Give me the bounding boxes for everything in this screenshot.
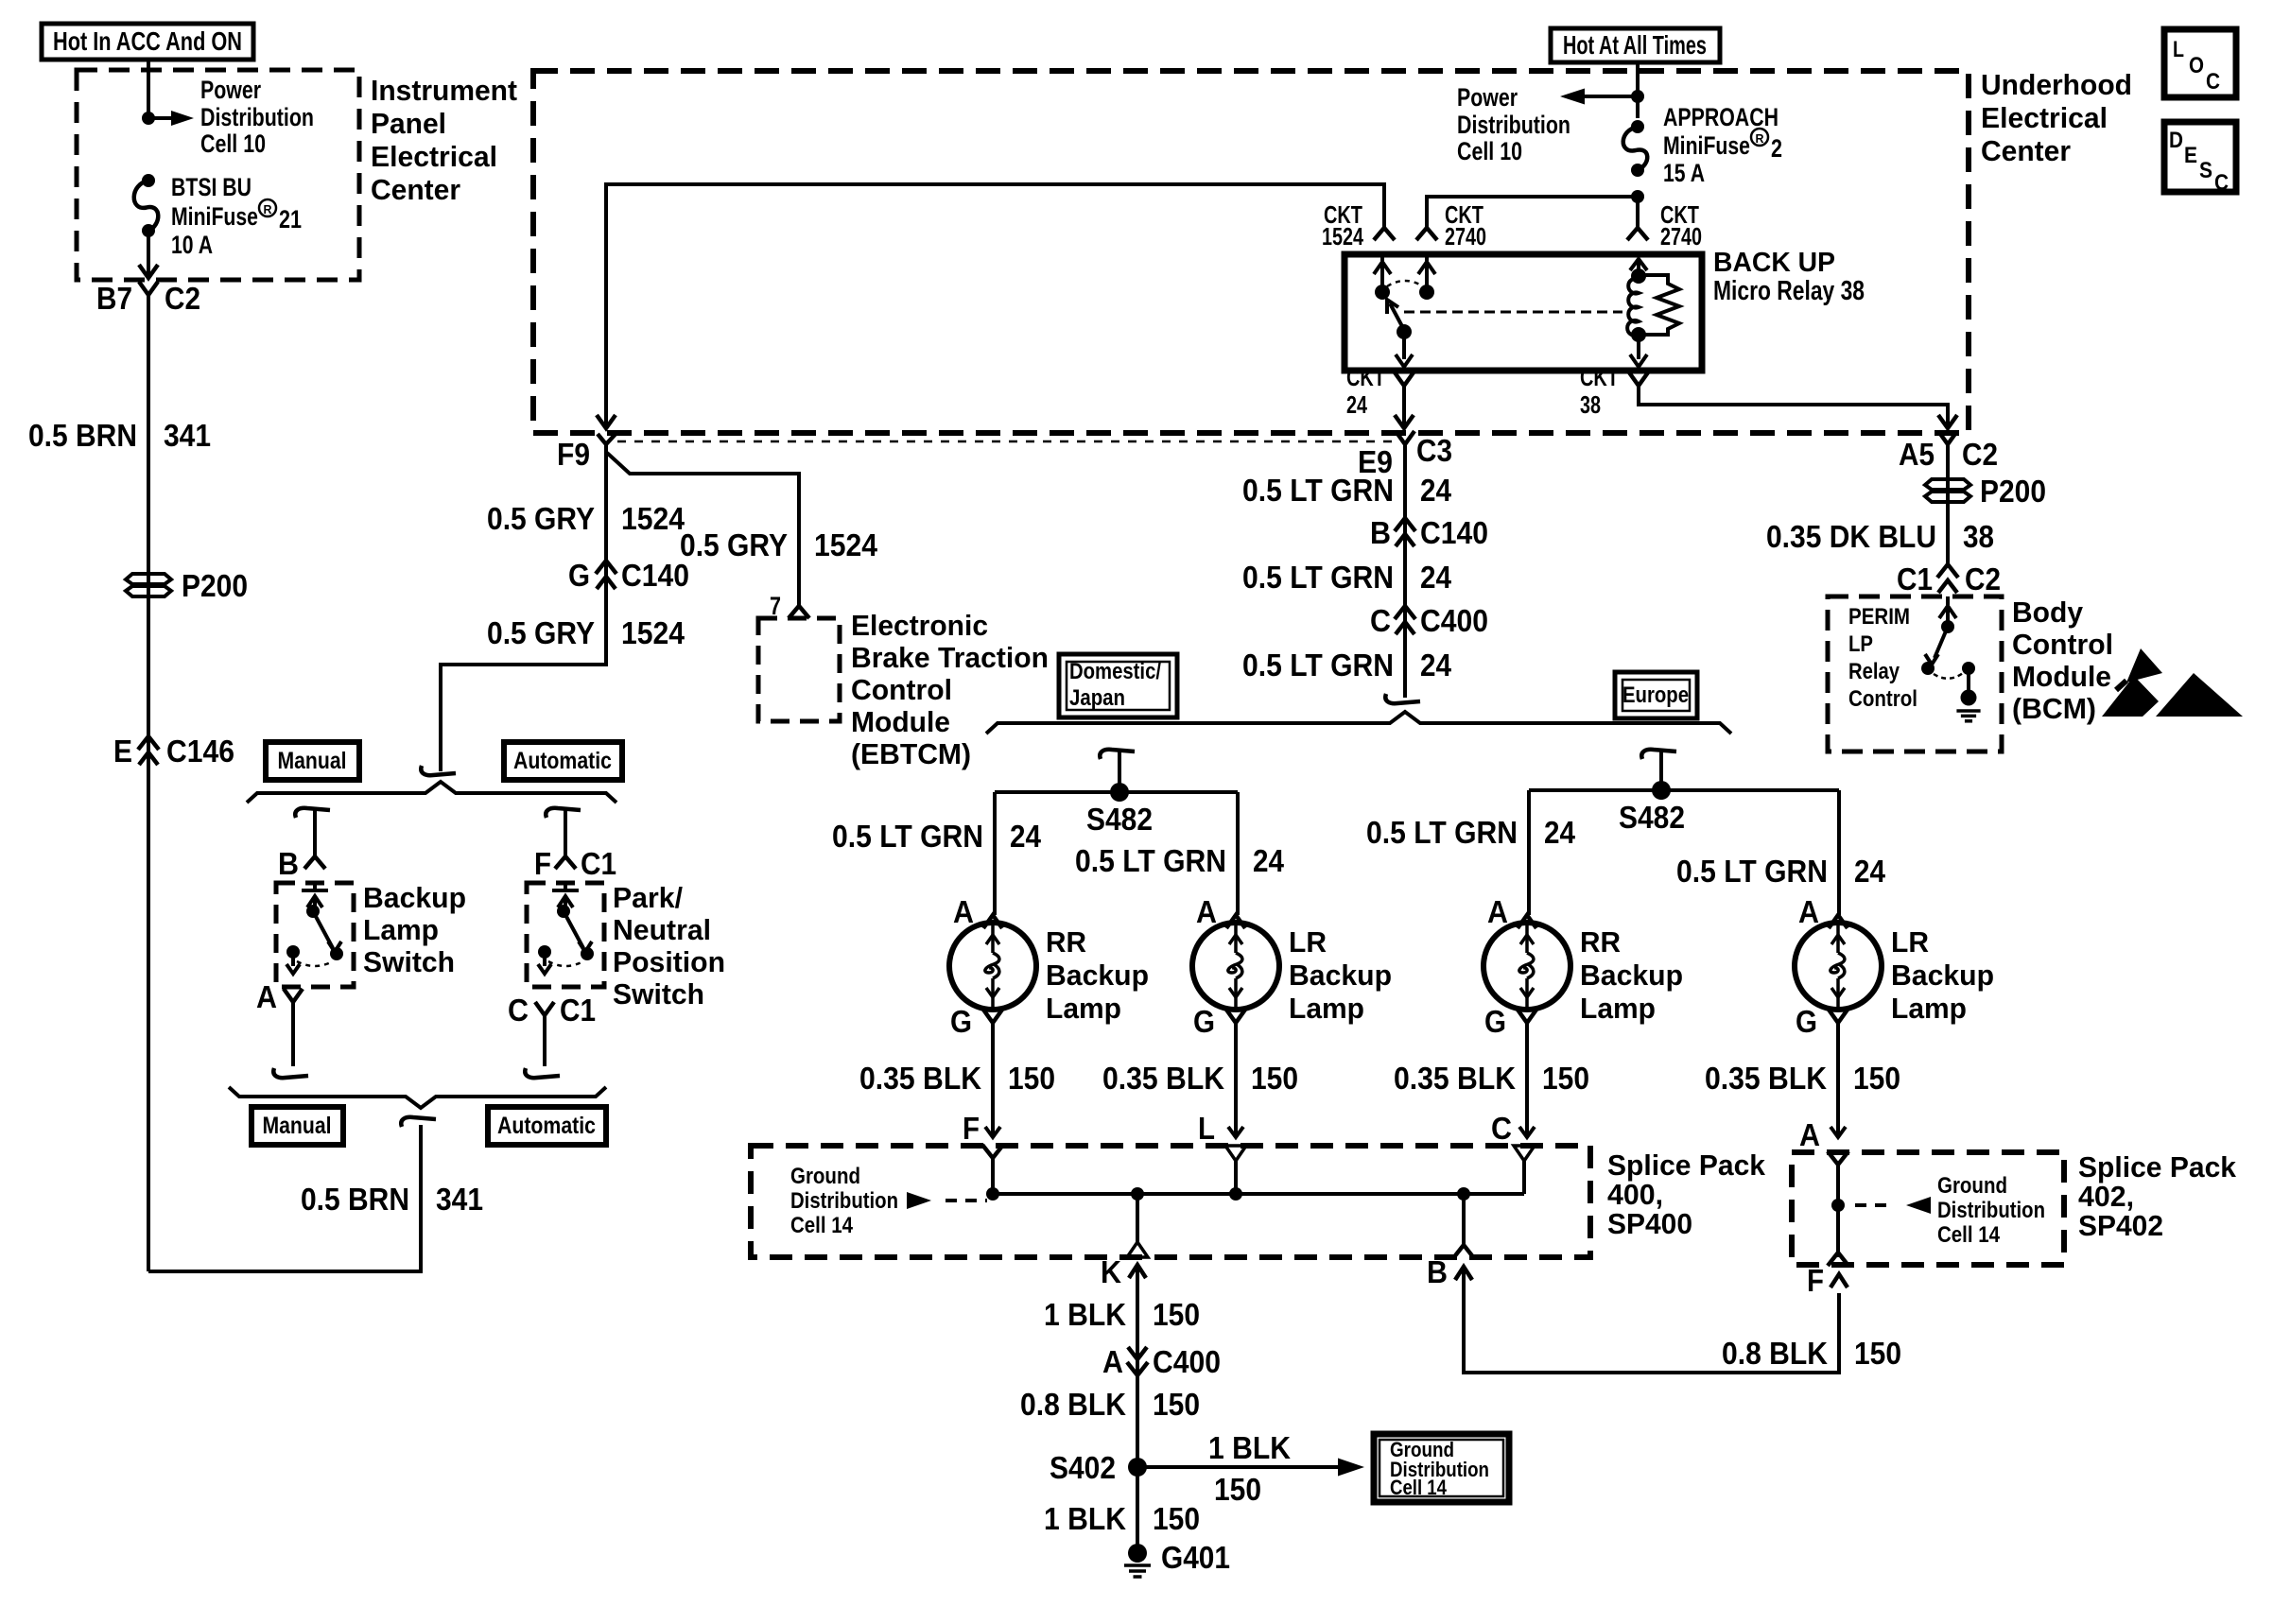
svg-text:S482: S482 <box>1086 802 1153 837</box>
node S482 domestic <box>1086 783 1153 837</box>
pigtail domestic S482 feed <box>1100 750 1135 792</box>
label Splice Pack 402 SP402 <box>2078 1150 2237 1242</box>
svg-text:1 BLK: 1 BLK <box>1208 1430 1291 1465</box>
svg-text:Lamp: Lamp <box>1891 992 1967 1025</box>
Manual box top <box>266 742 359 780</box>
label 0.5 LT GRN 24 LR dom <box>1075 843 1285 878</box>
label 0.5 LT GRN 24 RR eur <box>1366 815 1576 850</box>
connector G C140 <box>568 558 689 593</box>
pigtail below bottom bracket <box>401 1117 436 1127</box>
svg-text:P200: P200 <box>182 568 248 603</box>
svg-text:Automatic: Automatic <box>497 1113 596 1139</box>
svg-text:24: 24 <box>1346 390 1367 419</box>
wire fuse to relay coil pin CKT 2740 <box>1636 197 1640 227</box>
svg-text:24: 24 <box>1420 473 1452 508</box>
Automatic box bottom <box>488 1107 606 1145</box>
bracket domestic europe <box>986 712 1731 734</box>
svg-text:S: S <box>2199 158 2212 183</box>
svg-text:Ground: Ground <box>1937 1173 2007 1199</box>
svg-text:Domestic/: Domestic/ <box>1069 659 1161 684</box>
connector E C146 <box>113 734 234 769</box>
svg-text:B: B <box>1427 1254 1448 1289</box>
wire 0.5 LT GRN 24 feed <box>1403 444 1407 698</box>
svg-text:Module: Module <box>2012 660 2111 693</box>
svg-text:341: 341 <box>436 1182 483 1217</box>
LOC box <box>2164 29 2236 97</box>
svg-text:C1: C1 <box>560 993 596 1028</box>
svg-text:F: F <box>1807 1263 1824 1298</box>
svg-text:0.5 BRN: 0.5 BRN <box>301 1182 409 1217</box>
label Backup Lamp Switch <box>363 881 466 978</box>
svg-text:Backup: Backup <box>1580 959 1683 992</box>
svg-text:150: 150 <box>1153 1297 1200 1332</box>
svg-text:24: 24 <box>1854 854 1886 889</box>
svg-text:Center: Center <box>1981 134 2071 167</box>
svg-text:150: 150 <box>1251 1061 1298 1096</box>
pin B backup lamp switch <box>278 846 325 881</box>
svg-text:1524: 1524 <box>621 615 685 650</box>
svg-text:R: R <box>1756 131 1765 146</box>
splice pack 400 exit B <box>1453 1194 1474 1258</box>
Ground Distribution Cell 14 box <box>1374 1434 1509 1502</box>
lamp LR backup lamp 2 <box>1192 923 1279 1010</box>
svg-text:0.5 BRN: 0.5 BRN <box>28 418 137 453</box>
inline connector P200 right <box>1925 474 2046 509</box>
wire switch A to bottom bracket <box>273 1002 308 1078</box>
svg-text:Control: Control <box>2012 628 2113 661</box>
node S402 <box>1050 1450 1147 1485</box>
label 0.5 LT GRN 24 seg2 <box>1242 560 1452 595</box>
wire fuse to IP box bottom <box>139 231 158 278</box>
svg-text:0.5 GRY: 0.5 GRY <box>487 615 595 650</box>
svg-text:Distribution: Distribution <box>1457 111 1570 139</box>
svg-text:P200: P200 <box>1980 474 2046 509</box>
svg-text:38: 38 <box>1580 390 1601 419</box>
svg-text:Automatic: Automatic <box>513 748 612 774</box>
label 0.35 DK BLU 38 <box>1766 519 1994 554</box>
splice pack 402 dashed box <box>1792 1152 2064 1265</box>
svg-text:1524: 1524 <box>621 501 685 536</box>
svg-text:G401: G401 <box>1161 1540 1230 1575</box>
svg-text:LP: LP <box>1848 631 1873 657</box>
label 0.5 GRY 1524 lower <box>487 615 685 650</box>
svg-text:C400: C400 <box>1153 1344 1221 1379</box>
svg-text:(BCM): (BCM) <box>2012 692 2096 725</box>
pin A backup lamp switch <box>256 979 303 1014</box>
svg-text:CKT: CKT <box>1580 363 1619 391</box>
svg-text:G: G <box>1193 1004 1215 1039</box>
svg-text:Backup: Backup <box>1046 959 1149 992</box>
fuse BTSI BU MiniFuse 21 10A <box>134 174 159 237</box>
svg-text:Hot At All Times: Hot At All Times <box>1563 30 1707 60</box>
svg-text:S402: S402 <box>1050 1450 1116 1485</box>
svg-text:Position: Position <box>613 945 725 978</box>
pin L splice pack 400 <box>1198 1111 1215 1146</box>
arrow ground distribution sp400 <box>907 1192 987 1209</box>
svg-text:F9: F9 <box>557 437 590 472</box>
svg-text:Switch: Switch <box>613 977 704 1011</box>
label Power Distribution Cell 10 UEC <box>1457 83 1570 165</box>
label Ground Distribution Cell 14 sp400 <box>790 1164 898 1238</box>
svg-text:B: B <box>1370 515 1391 550</box>
label 0.35 BLK 150 lamp 4 <box>1705 1061 1900 1096</box>
DESC box <box>2164 122 2236 196</box>
arrow ground distribution sp402 <box>1855 1197 1931 1214</box>
svg-text:C: C <box>1491 1111 1512 1146</box>
arrow to Power Distribution Cell 10 UEC <box>1560 89 1638 105</box>
wire Hot At All Times into UEC <box>1636 62 1640 118</box>
svg-text:402,: 402, <box>2078 1180 2134 1213</box>
svg-text:Module: Module <box>851 705 950 738</box>
wire bracket to backup lamp switch pin B <box>295 808 330 856</box>
svg-text:CKT: CKT <box>1346 363 1385 391</box>
svg-text:Distribution: Distribution <box>200 103 314 131</box>
svg-text:24: 24 <box>1544 815 1576 850</box>
park neutral switch contacts <box>538 883 594 974</box>
svg-text:0.5 LT GRN: 0.5 LT GRN <box>1676 854 1828 889</box>
label Power Distribution Cell 10 <box>200 76 314 158</box>
svg-text:RR: RR <box>1046 925 1086 959</box>
svg-text:C146: C146 <box>166 734 234 769</box>
svg-text:G: G <box>950 1004 972 1039</box>
svg-text:150: 150 <box>1542 1061 1589 1096</box>
svg-text:Distribution: Distribution <box>1937 1198 2045 1223</box>
connector B7 C2 <box>96 281 200 316</box>
label 0.8 BLK 150 left <box>1020 1387 1200 1422</box>
svg-text:150: 150 <box>1008 1061 1055 1096</box>
Manual box bottom <box>252 1107 343 1145</box>
svg-text:D: D <box>2169 128 2183 153</box>
label 0.5 GRY 1524 upper <box>487 501 685 536</box>
svg-text:Cell 10: Cell 10 <box>200 130 266 158</box>
svg-text:0.35 BLK: 0.35 BLK <box>1394 1061 1516 1096</box>
label Park Neutral Position Switch <box>613 881 725 1011</box>
connector A C400 bottom <box>1102 1344 1221 1379</box>
svg-text:Splice Pack: Splice Pack <box>1607 1149 1766 1182</box>
splice pack 400 dashed box <box>751 1146 1590 1257</box>
label 1 BLK 150 upper <box>1044 1297 1200 1332</box>
svg-text:Backup: Backup <box>1289 959 1392 992</box>
wire from Hot In ACC And ON into IP center <box>147 60 150 118</box>
svg-text:G: G <box>1484 1004 1506 1039</box>
svg-text:R: R <box>264 202 273 216</box>
svg-text:2: 2 <box>1771 134 1782 163</box>
wire B to F splice pack 402 <box>1427 1254 1848 1373</box>
svg-text:BTSI BU: BTSI BU <box>171 173 252 201</box>
arrow to Power Distribution Cell 10 <box>148 111 194 126</box>
svg-text:Japan: Japan <box>1069 685 1125 711</box>
svg-text:Brake Traction: Brake Traction <box>851 641 1049 674</box>
svg-text:0.5 LT GRN: 0.5 LT GRN <box>1242 648 1394 682</box>
svg-text:Lamp: Lamp <box>1580 992 1656 1025</box>
svg-text:LR: LR <box>1891 925 1929 959</box>
label 0.5 BRN 341 <box>28 418 211 453</box>
svg-text:Micro Relay 38: Micro Relay 38 <box>1713 276 1865 306</box>
wire 0.35 BLK 150 lamp 3 <box>1519 1023 1535 1137</box>
svg-text:L: L <box>1198 1111 1215 1146</box>
splice pack 400 entry F <box>982 1145 1003 1158</box>
svg-text:MiniFuse: MiniFuse <box>171 202 258 231</box>
pin A RR backup lamp 1 <box>953 894 1002 929</box>
label Splice Pack 400 SP400 <box>1607 1149 1766 1240</box>
svg-text:RR: RR <box>1580 925 1621 959</box>
splice pack 402 exit F <box>1807 1253 1848 1298</box>
label 0.8 BLK 150 right <box>1722 1336 1901 1371</box>
svg-text:E: E <box>2184 143 2197 168</box>
splice pack 400 entry C <box>1514 1146 1535 1161</box>
svg-text:1524: 1524 <box>814 527 878 562</box>
svg-text:Power: Power <box>1457 83 1518 112</box>
wire RR europe drop <box>1527 790 1531 915</box>
svg-text:Lamp: Lamp <box>363 913 439 946</box>
pin CKT 38 <box>1580 363 1648 419</box>
pin G LR backup lamp 2 <box>1193 1004 1245 1039</box>
svg-text:Europe: Europe <box>1622 682 1689 708</box>
label Instrument Panel Electrical Center <box>371 74 517 206</box>
pigtail at bracket feed <box>421 766 456 775</box>
BCM dashed box <box>1828 596 2002 752</box>
BCM perim lp relay control switch <box>1921 596 1981 721</box>
pigtail europe S482 feed <box>1641 750 1676 790</box>
label 0.35 BLK 150 lamp 3 <box>1394 1061 1589 1096</box>
svg-text:Ground: Ground <box>790 1164 860 1189</box>
svg-text:Control: Control <box>1848 686 1917 712</box>
wire CKT 38 to A5 <box>1639 386 1957 428</box>
lamp RR backup lamp 1 <box>949 923 1036 1010</box>
pin C C1 park neutral switch <box>508 993 596 1028</box>
wire F9 branch to EBTCM <box>607 453 799 606</box>
svg-text:Lamp: Lamp <box>1046 992 1121 1025</box>
backup lamp switch contacts <box>286 883 343 974</box>
connector B C140 <box>1370 515 1488 550</box>
svg-text:Electrical: Electrical <box>1981 101 2108 134</box>
label 0.5 LT GRN 24 LR eur <box>1676 854 1886 889</box>
svg-text:APPROACH: APPROACH <box>1663 103 1778 131</box>
label Body Control Module BCM <box>2012 596 2113 725</box>
connector C1 C2 BCM <box>1897 561 2001 596</box>
svg-text:341: 341 <box>164 418 211 453</box>
pin A RR backup lamp 3 <box>1487 894 1536 929</box>
wire LR domestic drop <box>1236 792 1240 915</box>
svg-text:Park/: Park/ <box>613 881 683 914</box>
svg-text:SP400: SP400 <box>1607 1207 1692 1240</box>
svg-text:Power: Power <box>200 76 261 104</box>
pin CKT 24 <box>1346 363 1414 419</box>
svg-text:A: A <box>1487 894 1508 929</box>
label 1 BLK 150 horizontal <box>1208 1430 1291 1507</box>
svg-text:G: G <box>568 558 590 593</box>
wire domestic lamp bus <box>995 790 1238 794</box>
pigtail above market bracket <box>1385 694 1420 703</box>
svg-text:Electronic: Electronic <box>851 609 988 642</box>
svg-text:Splice Pack: Splice Pack <box>2078 1150 2237 1183</box>
svg-text:0.8 BLK: 0.8 BLK <box>1020 1387 1126 1422</box>
svg-text:2740: 2740 <box>1445 222 1486 251</box>
svg-text:Electrical: Electrical <box>371 140 497 173</box>
inline connector P200 left <box>126 568 248 603</box>
EBTCM dashed box <box>758 618 840 721</box>
svg-text:Switch: Switch <box>363 945 455 978</box>
svg-text:Cell 14: Cell 14 <box>790 1213 854 1238</box>
svg-text:Cell 14: Cell 14 <box>1390 1476 1448 1499</box>
svg-text:0.5 LT GRN: 0.5 LT GRN <box>832 819 983 854</box>
wire CKT 24 to E9 <box>1395 386 1414 428</box>
svg-text:Center: Center <box>371 173 460 206</box>
svg-text:C2: C2 <box>1965 561 2001 596</box>
label 0.5 LT GRN 24 seg3 <box>1242 648 1452 682</box>
svg-text:0.35 BLK: 0.35 BLK <box>1102 1061 1224 1096</box>
wire from C140 corner to manual-automatic bracket <box>441 451 606 771</box>
svg-text:B7: B7 <box>96 281 132 316</box>
junction box Hot In ACC And ON <box>42 24 253 60</box>
Europe box <box>1615 672 1697 718</box>
svg-text:C: C <box>2206 69 2220 95</box>
pin CKT 2740 right <box>1627 200 1702 251</box>
svg-text:C2: C2 <box>1962 437 1998 472</box>
connector F9 <box>557 433 616 472</box>
label 0.5 GRY 1524 ebtcm branch <box>680 527 878 562</box>
svg-text:1524: 1524 <box>1322 222 1363 251</box>
svg-text:0.35 BLK: 0.35 BLK <box>1705 1061 1827 1096</box>
backup lamp switch dashed box <box>276 883 354 987</box>
svg-text:150: 150 <box>1153 1387 1200 1422</box>
lamp RR backup lamp 3 <box>1484 923 1570 1010</box>
svg-text:0.5 LT GRN: 0.5 LT GRN <box>1242 560 1394 595</box>
relay mechanical dashed link <box>1404 311 1622 314</box>
svg-text:24: 24 <box>1253 843 1285 878</box>
svg-text:Instrument: Instrument <box>371 74 517 107</box>
svg-text:0.5 LT GRN: 0.5 LT GRN <box>1075 843 1226 878</box>
svg-text:24: 24 <box>1010 819 1042 854</box>
splice pack 400 ground bus <box>986 1155 1524 1201</box>
svg-text:G: G <box>1796 1004 1817 1039</box>
svg-text:C2: C2 <box>165 281 200 316</box>
label Underhood Electrical Center <box>1981 68 2132 167</box>
relay suppression resistor <box>1639 275 1679 335</box>
label BACK UP Micro Relay 38 <box>1713 248 1865 306</box>
connector C C400 <box>1370 603 1488 638</box>
svg-text:150: 150 <box>1214 1472 1261 1507</box>
relay switch common contacts <box>1374 254 1435 300</box>
svg-text:C400: C400 <box>1420 603 1488 638</box>
pin CKT 2740 left <box>1416 200 1486 251</box>
Automatic box top <box>504 742 622 780</box>
svg-text:150: 150 <box>1853 1061 1900 1096</box>
wire bottom-left corner to switches drop <box>148 1125 421 1271</box>
svg-text:A: A <box>1102 1344 1123 1379</box>
svg-text:Body: Body <box>2012 596 2084 629</box>
label BTSI BU MiniFuse 21 10 A <box>171 173 302 259</box>
label PERIM LP Relay Control <box>1848 604 1917 712</box>
bracket manual automatic top <box>247 782 616 803</box>
svg-text:A: A <box>953 894 974 929</box>
svg-text:0.5 LT GRN: 0.5 LT GRN <box>1242 473 1394 508</box>
svg-text:Hot In ACC And ON: Hot In ACC And ON <box>53 26 242 56</box>
pin G RR backup lamp 1 <box>950 1004 1002 1039</box>
svg-text:C: C <box>508 993 529 1028</box>
wire K to S402 <box>1101 1254 1146 1467</box>
label 0.5 LT GRN 24 seg1 <box>1242 473 1452 508</box>
svg-text:0.5 GRY: 0.5 GRY <box>487 501 595 536</box>
wire 0.35 BLK 150 lamp 4 <box>1831 1023 1846 1137</box>
svg-text:0.5 GRY: 0.5 GRY <box>680 527 788 562</box>
ESD symbol upper <box>2116 648 2162 690</box>
wire switch C to bottom bracket <box>525 1015 560 1078</box>
wire S402 to G401 <box>1136 1467 1139 1546</box>
wire 0.5 BRN 341 left column <box>147 295 150 1271</box>
label LR Backup Lamp 4 <box>1891 925 1994 1025</box>
label 0.5 LT GRN 24 RR dom <box>832 819 1042 854</box>
svg-text:PERIM: PERIM <box>1848 604 1910 630</box>
svg-text:O: O <box>2189 53 2204 78</box>
connector E9 C3 <box>1358 431 1452 479</box>
svg-text:C1: C1 <box>581 846 616 881</box>
pin G LR backup lamp 4 <box>1796 1004 1848 1039</box>
node power distribution tap <box>142 112 155 125</box>
svg-text:24: 24 <box>1420 560 1452 595</box>
svg-text:A: A <box>1799 1117 1820 1152</box>
svg-text:10 A: 10 A <box>171 231 213 259</box>
svg-text:C140: C140 <box>1420 515 1488 550</box>
lamp LR backup lamp 4 <box>1795 923 1882 1010</box>
BACK UP Micro Relay 38 box <box>1345 254 1702 371</box>
wire 0.35 BLK 150 lamp 1 <box>985 1023 1000 1137</box>
svg-text:F: F <box>963 1111 980 1146</box>
node splice pack 402 <box>1831 1199 1845 1212</box>
label LR Backup Lamp 2 <box>1289 925 1392 1025</box>
label 0.35 BLK 150 lamp 2 <box>1102 1061 1298 1096</box>
splice pack 400 exit K <box>1127 1194 1148 1257</box>
label 1 BLK 150 lower <box>1044 1501 1200 1536</box>
svg-text:A: A <box>1196 894 1217 929</box>
svg-text:L: L <box>2173 37 2184 62</box>
relay coil <box>1627 254 1647 367</box>
pin F splice pack 400 <box>963 1111 980 1146</box>
svg-text:E: E <box>113 734 132 769</box>
svg-text:Underhood: Underhood <box>1981 68 2132 101</box>
svg-text:MiniFuse: MiniFuse <box>1663 131 1750 160</box>
svg-text:S482: S482 <box>1619 800 1685 835</box>
wire RR domestic drop <box>993 792 997 915</box>
relay switch lever <box>1387 300 1413 367</box>
svg-text:Cell 10: Cell 10 <box>1457 137 1522 165</box>
wire fuse to relay switch pin CKT 2740 <box>1427 197 1638 227</box>
svg-text:C1: C1 <box>1897 561 1933 596</box>
connector line C3 thin dashed <box>617 441 1397 443</box>
svg-text:15 A: 15 A <box>1663 159 1705 187</box>
svg-text:Control: Control <box>851 673 952 706</box>
wire bracket to park neutral pin F <box>546 808 581 856</box>
svg-text:F: F <box>534 846 551 881</box>
label Electronic Brake Traction Control Module EBTCM <box>851 609 1049 770</box>
svg-text:Manual: Manual <box>278 748 347 774</box>
Instrument Panel Electrical Center dashed box <box>77 70 359 280</box>
svg-text:K: K <box>1101 1254 1121 1289</box>
svg-text:38: 38 <box>1963 519 1994 554</box>
svg-text:Backup: Backup <box>1891 959 1994 992</box>
wire 0.35 BLK 150 lamp 2 <box>1228 1023 1243 1137</box>
node S482 europe <box>1619 781 1685 835</box>
pin A LR backup lamp 4 <box>1798 894 1848 929</box>
pin C splice pack 400 <box>1491 1111 1512 1146</box>
svg-text:150: 150 <box>1153 1501 1200 1536</box>
bracket manual automatic bottom <box>229 1087 606 1108</box>
Domestic Japan box <box>1059 654 1177 717</box>
svg-text:C140: C140 <box>621 558 689 593</box>
svg-text:1 BLK: 1 BLK <box>1044 1501 1126 1536</box>
svg-text:0.5 LT GRN: 0.5 LT GRN <box>1366 815 1518 850</box>
wire A5 to BCM <box>1946 444 1950 567</box>
